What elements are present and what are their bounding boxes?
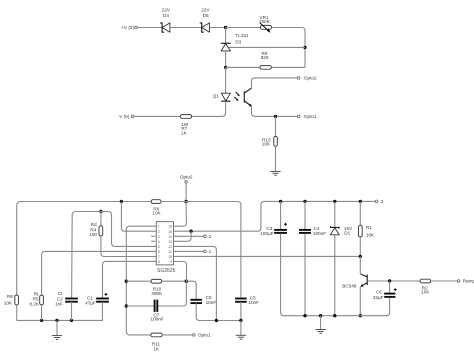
ground stem right rail	[320, 316, 322, 330]
svg-text:9: 9	[170, 260, 172, 264]
resistor R13 10K	[262, 136, 278, 146]
terminal 2	[204, 234, 212, 239]
svg-text:10K: 10K	[262, 142, 271, 147]
resistor R9 820	[260, 51, 271, 69]
svg-text:+V (5): +V (5)	[121, 25, 134, 30]
resistor R7 1K 1W	[180, 115, 191, 136]
ground stem left	[56, 320, 58, 335]
terminal Opto2 lower	[180, 175, 193, 183]
capacitor C3 100uF	[260, 201, 287, 236]
wire pin5 net upper run	[76, 212, 157, 247]
svg-text:100: 100	[89, 232, 97, 237]
wire pin5 net node connect	[96, 211, 106, 213]
wire node to R10	[126, 280, 151, 282]
svg-text:2: 2	[209, 234, 212, 239]
zener diode D4	[160, 8, 171, 33]
svg-text:Opto1: Opto1	[304, 114, 317, 119]
potentiometer VR1 100K	[259, 15, 272, 33]
wire R11 to Opto1 terminal	[162, 334, 192, 336]
capacitor C5 10nF	[235, 295, 259, 305]
wire emitter to Opto1	[252, 106, 298, 116]
wire node to LED anode	[225, 67, 227, 93]
wire D5 to node	[210, 27, 226, 29]
wire R4 to pin7	[101, 236, 156, 257]
svg-text:BC548: BC548	[342, 283, 357, 288]
svg-text:4: 4	[158, 240, 160, 244]
wire pin5 net corner to C2	[72, 212, 76, 299]
resistor R2 10K	[420, 279, 431, 294]
wire Opto2 net right then down to C5	[186, 202, 241, 299]
svg-text:6: 6	[158, 250, 160, 254]
wire R5 to ground rail	[41, 305, 43, 321]
bottom rail right	[283, 315, 388, 317]
wire R1 to pin10 node	[359, 237, 361, 257]
transistor BC548	[342, 256, 367, 288]
svg-text:D3: D3	[235, 39, 241, 44]
terminal Opto1 upper	[297, 114, 317, 119]
wire pin15 to top rail	[174, 201, 376, 231]
node junction top	[224, 26, 227, 29]
terminal -V (6)	[118, 114, 134, 119]
svg-text:Opto1: Opto1	[198, 333, 211, 338]
wire base to R2	[368, 280, 420, 282]
svg-text:12: 12	[168, 245, 172, 249]
svg-text:Q1: Q1	[213, 94, 220, 99]
wire R6 to node	[161, 201, 186, 203]
wire D1 to bottom rail	[334, 235, 336, 316]
wire R10 to node	[162, 280, 187, 282]
opto light arrow 1	[236, 92, 240, 96]
svg-text:2: 2	[158, 230, 160, 234]
svg-text:15: 15	[168, 230, 172, 234]
wire TL431 ref to divider node	[229, 46, 305, 48]
node ground stem right	[319, 314, 322, 317]
svg-text:100nF: 100nF	[313, 231, 326, 236]
node R10 left	[125, 280, 128, 283]
svg-text:10K: 10K	[152, 211, 161, 216]
svg-text:10nF: 10nF	[248, 300, 259, 305]
wire pin1 riser	[126, 226, 156, 335]
wire pin12 to ground rail	[174, 246, 217, 320]
svg-text:1K: 1K	[181, 130, 188, 135]
resistor R5 8.2K (Rt)	[29, 291, 43, 306]
ground symbol mid	[315, 330, 325, 334]
wire pin16 to Opto2 net	[174, 202, 187, 227]
wire pin14 to terminal 2	[174, 235, 204, 237]
ground stem C5	[240, 321, 242, 336]
wire Opto2 net left to R6 and down left edge	[17, 202, 152, 296]
svg-text:1nF: 1nF	[55, 302, 63, 307]
terminal Opto2 upper	[297, 76, 317, 81]
terminal Opto1 lower	[193, 333, 211, 338]
node emitter rail	[359, 314, 362, 317]
wire pin13 riser	[174, 231, 192, 241]
opto light arrow 2	[234, 97, 238, 101]
node ground stem	[55, 319, 58, 322]
wire pin11 to terminal 1	[174, 250, 204, 252]
svg-text:1: 1	[209, 249, 212, 254]
svg-text:10K: 10K	[421, 290, 430, 295]
node anode junction	[224, 66, 227, 69]
wire C6 to bottom rail	[386, 298, 390, 316]
resistor R6 10K	[151, 200, 161, 216]
wire node to TL431 cathode	[225, 28, 227, 44]
optocoupler Q1 phototransistor	[244, 88, 252, 106]
resistor R8 10K	[4, 294, 19, 306]
svg-text:47µF: 47µF	[85, 301, 96, 306]
node pin2 branch	[120, 200, 123, 203]
svg-text:13: 13	[168, 240, 172, 244]
node C7 left	[125, 304, 128, 307]
resistor R1 10K	[359, 201, 376, 237]
resistor R10 390K	[151, 279, 163, 296]
wire node to R13	[275, 116, 277, 136]
svg-text:1K: 1K	[153, 346, 160, 351]
svg-text:Opto2: Opto2	[304, 76, 317, 81]
node C4 top	[303, 200, 306, 203]
svg-text:3: 3	[381, 199, 384, 204]
svg-text:820: 820	[261, 55, 269, 60]
svg-text:100nF: 100nF	[151, 317, 164, 322]
ground below R13	[270, 171, 280, 175]
TL431 D3	[221, 33, 249, 51]
wire R7 to -V terminal	[134, 115, 181, 117]
svg-text:SG3525: SG3525	[157, 268, 176, 274]
terminal +V (5)	[121, 25, 137, 30]
wire C2 to ground rail	[71, 302, 73, 321]
node pin13 branch	[189, 230, 192, 233]
node C6 top	[388, 279, 391, 282]
svg-text:TL431: TL431	[235, 33, 249, 38]
node C4 bottom	[303, 314, 306, 317]
svg-text:10: 10	[168, 255, 172, 259]
zener diode D1 15V	[330, 201, 353, 235]
ground symbol C5	[236, 335, 246, 339]
svg-text:R1: R1	[366, 225, 372, 230]
svg-text:7: 7	[158, 255, 160, 259]
resistor R11 1K	[151, 333, 162, 351]
node D1 bottom	[333, 314, 336, 317]
wire C1 to ground rail end	[101, 302, 103, 321]
svg-text:5: 5	[158, 245, 160, 249]
svg-text:100µF: 100µF	[260, 231, 273, 236]
node R1 pin10 junction	[359, 255, 362, 258]
wire LED cathode to R7 line	[192, 101, 226, 116]
svg-text:8: 8	[158, 260, 160, 264]
wire R8 to ground rail	[16, 305, 18, 321]
svg-text:C6: C6	[376, 290, 382, 295]
resistor R4 100 (Rd)	[89, 222, 102, 237]
wire TL431 anode down	[225, 51, 227, 68]
capacitor C8 10nF	[190, 295, 216, 305]
svg-text:Ramp: Ramp	[463, 279, 474, 284]
terminal 1	[204, 249, 212, 254]
pin 3 stub	[151, 235, 155, 237]
wire emitter to bottom rail	[359, 287, 361, 316]
svg-text:D4: D4	[163, 13, 169, 18]
ground symbol left	[52, 336, 62, 340]
node Opto2 net	[184, 200, 188, 204]
svg-text:10nF: 10nF	[206, 300, 217, 305]
wire C5 to ground node	[240, 302, 242, 321]
wire C1 to pin8	[103, 261, 157, 298]
svg-text:Opto2: Opto2	[180, 175, 193, 180]
svg-text:D5: D5	[203, 13, 209, 18]
wire pin6 line to R5	[42, 251, 157, 295]
zener diode D5	[200, 8, 211, 33]
wire R9 to right rail	[271, 66, 305, 68]
svg-text:100K: 100K	[259, 19, 271, 24]
optocoupler Q1 LED	[213, 93, 231, 101]
wire node to VR1	[226, 27, 261, 29]
svg-text:Ct: Ct	[58, 291, 63, 296]
wire node through R4	[100, 212, 102, 226]
wire D4 to D5	[170, 27, 201, 29]
svg-text:11: 11	[168, 250, 172, 254]
capacitor C4 100nF	[299, 201, 326, 236]
pin 4 stub	[151, 240, 155, 242]
wire pin10 long line	[174, 255, 361, 257]
node R5 ground	[40, 319, 43, 322]
capacitor C7 100nF	[151, 300, 164, 322]
node ref junction	[303, 46, 306, 49]
svg-text:10K: 10K	[4, 301, 13, 306]
svg-text:10K: 10K	[366, 233, 375, 238]
wire VR1 to right corner down to R9	[272, 28, 305, 68]
terminal Ramp	[457, 279, 474, 284]
wire C8 to ground rail mid	[196, 303, 241, 320]
wire pin2 riser	[121, 202, 156, 232]
wire node to R9	[226, 66, 260, 68]
wire collector to Opto2	[252, 78, 298, 88]
IC SG3525	[156, 222, 175, 274]
svg-text:22V: 22V	[162, 8, 171, 13]
capacitor C6 22uF	[373, 281, 397, 300]
wire +V to D4	[137, 27, 161, 29]
node C2 ground	[70, 319, 73, 322]
wire pin9 down to node	[174, 262, 187, 282]
svg-text:D1: D1	[344, 231, 350, 236]
wire C3 to bottom rail	[281, 234, 285, 316]
svg-text:1: 1	[158, 225, 160, 229]
wire R2 to Ramp terminal	[431, 280, 458, 282]
wire C4 to bottom rail	[304, 234, 306, 316]
svg-text:16: 16	[168, 225, 172, 229]
node D1 top	[333, 200, 336, 203]
wire R13 to ground	[275, 146, 277, 171]
node R1 top	[359, 200, 362, 203]
svg-text:14: 14	[168, 235, 172, 239]
svg-text:390K: 390K	[151, 291, 163, 296]
capacitor C2 1nF (Ct)	[55, 291, 78, 306]
node R4 top	[99, 210, 102, 213]
svg-text:-V (6): -V (6)	[118, 114, 130, 119]
svg-text:R8: R8	[7, 294, 13, 299]
ground rail left	[17, 319, 103, 321]
terminal 3	[375, 199, 383, 204]
node C5 ground	[239, 319, 242, 322]
capacitor C1 47uF	[85, 293, 109, 306]
node pin12 ground	[215, 319, 218, 322]
wire C8 from node	[186, 281, 196, 300]
svg-text:8.2K: 8.2K	[29, 302, 39, 307]
svg-text:22µF: 22µF	[373, 295, 384, 300]
wire node to C7	[126, 281, 186, 306]
wire Opto2 terminal down to node	[185, 183, 187, 202]
node C3 top	[279, 200, 282, 203]
svg-text:22V: 22V	[201, 8, 210, 13]
svg-text:3: 3	[158, 235, 160, 239]
node pin9 R10 C7 C8 junction	[185, 279, 189, 283]
node emitter junction	[274, 115, 277, 118]
